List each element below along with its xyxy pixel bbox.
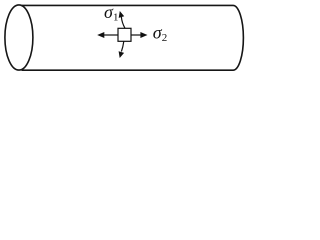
right arrow with tip [132, 32, 148, 38]
svg-text:1: 1 [113, 11, 119, 23]
svg-text:2: 2 [162, 32, 168, 44]
up arrow (sigma1, curved slightly left) [119, 11, 125, 28]
cylinder left cap ellipse [5, 5, 33, 70]
cylinder body [22, 5, 244, 70]
stress element square [118, 28, 131, 41]
down arrow (curved slightly left) [119, 41, 125, 58]
left arrow (sigma2 axial, pointing left) [97, 32, 117, 38]
